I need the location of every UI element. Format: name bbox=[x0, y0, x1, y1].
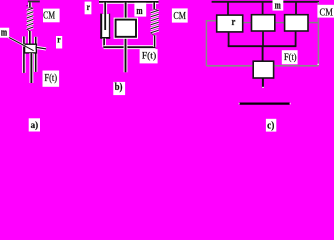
svg-text:F(t): F(t) bbox=[142, 51, 156, 62]
svg-text:c): c) bbox=[267, 121, 274, 132]
svg-text:F(t): F(t) bbox=[44, 73, 57, 84]
svg-text:m: m bbox=[136, 6, 142, 17]
svg-text:CM: CM bbox=[43, 10, 55, 21]
svg-text:a): a) bbox=[31, 120, 38, 131]
svg-text:CM: CM bbox=[173, 10, 186, 22]
svg-text:m: m bbox=[1, 27, 7, 38]
svg-text:CM: CM bbox=[320, 7, 334, 19]
svg-text:m: m bbox=[275, 0, 281, 11]
svg-text:F(t): F(t) bbox=[284, 52, 297, 63]
svg-text:r: r bbox=[232, 17, 236, 28]
svg-text:b): b) bbox=[115, 82, 123, 93]
